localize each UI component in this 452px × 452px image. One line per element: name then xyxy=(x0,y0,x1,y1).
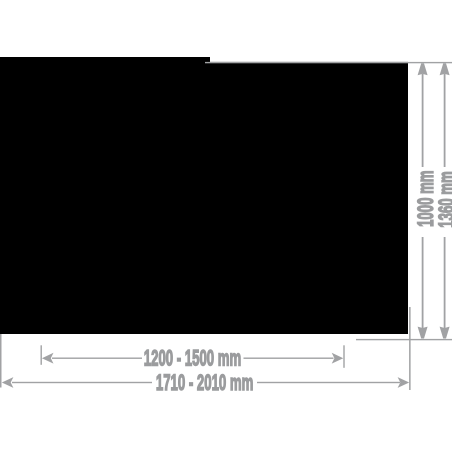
bottom-right horizontal extension line xyxy=(356,339,452,340)
right vertical extension line xyxy=(409,307,411,390)
svg-text:1200 - 1500 mm: 1200 - 1500 mm xyxy=(144,346,241,370)
svg-text:1360 mm: 1360 mm xyxy=(435,171,452,227)
dimension 1710 - 2010 mm (outer width) xyxy=(2,370,409,394)
dimension line lower segment xyxy=(422,237,424,329)
arrow down xyxy=(440,327,450,339)
dimension line right segment xyxy=(257,382,400,383)
arrow up xyxy=(418,63,428,75)
svg-text:1710 - 2010 mm: 1710 - 2010 mm xyxy=(156,370,253,394)
dimension line lower segment xyxy=(444,237,446,329)
top extension line xyxy=(205,62,452,63)
arrow left xyxy=(42,353,54,364)
arrow right xyxy=(398,377,410,388)
dimension 1200 - 1500 mm (inner width) xyxy=(41,345,345,370)
right tick xyxy=(343,345,344,368)
left extension line xyxy=(0,334,2,388)
arrow up xyxy=(440,63,450,75)
dimension 1360 mm (outer height) xyxy=(435,63,452,338)
arrow down xyxy=(418,327,428,339)
top notch (white strip above product top edge, right part) xyxy=(210,56,408,62)
left tick xyxy=(41,345,42,365)
dimension line left segment xyxy=(12,382,152,383)
arrow right xyxy=(332,353,344,364)
dimension line upper segment xyxy=(444,74,446,167)
dimension 1000 mm (inner height) xyxy=(414,63,438,338)
dimension line left segment xyxy=(52,358,142,359)
product panel (black awning body) xyxy=(0,57,408,334)
dimension line upper segment xyxy=(422,74,424,167)
arrow left xyxy=(2,377,14,388)
dimension line right segment xyxy=(244,358,334,359)
